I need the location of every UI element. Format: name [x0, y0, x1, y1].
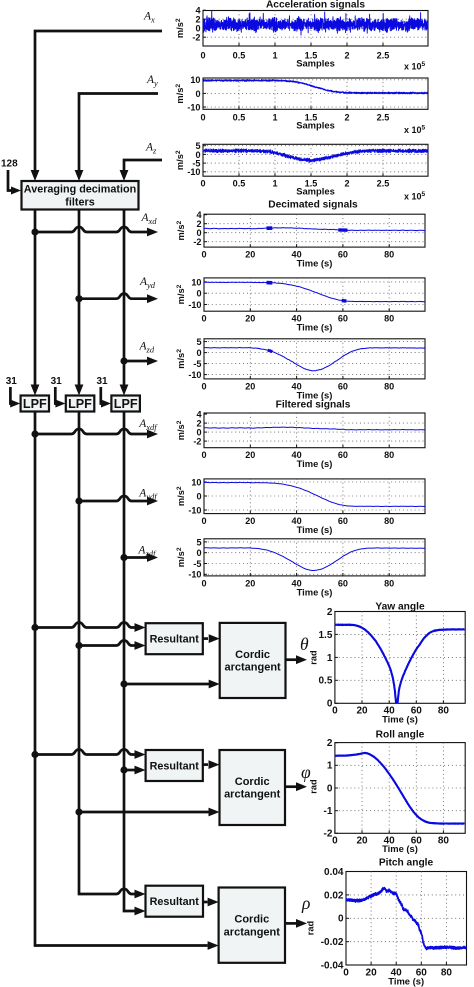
plot Pitch angle: x tick labels — [343, 968, 452, 979]
label Azd — [139, 341, 155, 355]
wire roll resultant input 2 — [124, 766, 146, 775]
junction dot roll input 1 — [31, 751, 38, 758]
plot Axd decimated: x tick labels — [201, 250, 394, 260]
svg-text:0: 0 — [196, 548, 201, 558]
wire pitch output rho — [285, 919, 307, 928]
svg-text:2.5: 2.5 — [377, 113, 390, 123]
svg-text:0.5: 0.5 — [233, 179, 246, 189]
svg-text:0: 0 — [201, 250, 206, 260]
plot Roll angle: y tick labels — [323, 738, 332, 840]
svg-text:Time (s): Time (s) — [297, 524, 333, 535]
label Ay — [146, 74, 158, 88]
svg-text:-0.04: -0.04 — [321, 960, 344, 971]
plot Ayd decimated: signal trace — [204, 282, 425, 302]
svg-text:2: 2 — [344, 51, 349, 61]
svg-text:0: 0 — [196, 348, 201, 358]
svg-text:-5: -5 — [193, 559, 201, 569]
plot Aydf filtered: axes box — [204, 479, 425, 514]
wire yaw output theta — [286, 655, 308, 664]
svg-text:Resultant: Resultant — [150, 634, 200, 646]
svg-text:m/s2: m/s2 — [175, 84, 185, 104]
junction dot yaw input 1 — [31, 624, 38, 631]
svg-text:LPF: LPF — [68, 397, 92, 411]
wire 31 into LPF2 — [55, 387, 65, 408]
svg-text:Time (s): Time (s) — [297, 322, 333, 333]
wire 128 into averaging block — [8, 170, 21, 195]
svg-text:80: 80 — [384, 516, 394, 526]
label Ax — [143, 11, 155, 25]
svg-text:-10: -10 — [187, 102, 200, 112]
junction dot yaw input 2 — [75, 642, 82, 649]
svg-text:10: 10 — [190, 75, 200, 85]
svg-text:1.5: 1.5 — [318, 630, 332, 641]
svg-text:2: 2 — [344, 113, 349, 123]
svg-text:Resultant: Resultant — [150, 760, 200, 772]
plot Azdf filtered: y tick labels — [188, 537, 201, 579]
label Azdf — [137, 545, 157, 559]
svg-text:Az: Az — [145, 142, 157, 156]
wire yaw resultant input 2 — [79, 640, 146, 650]
svg-text:-2: -2 — [193, 437, 201, 447]
svg-text:rad: rad — [309, 650, 319, 665]
plot Ayd decimated: axes box — [204, 278, 425, 311]
plot Roll angle: axes box — [335, 743, 465, 834]
svg-text:m/s2: m/s2 — [176, 420, 186, 440]
plot Azdf filtered: x tick labels — [201, 578, 394, 588]
svg-text:31: 31 — [51, 376, 63, 387]
block LPF U2 — [66, 396, 95, 412]
wire Azdf branch to plot — [124, 553, 158, 562]
plot Ax acceleration: signal trace — [203, 11, 428, 35]
plot Axdf filtered: signal trace — [204, 427, 425, 430]
svg-text:0: 0 — [195, 89, 200, 99]
plot Yaw angle: x tick labels — [332, 706, 449, 717]
svg-text:128: 128 — [1, 159, 18, 170]
plot Axd decimated: signal trace — [204, 228, 425, 231]
junction dot roll cordic input — [75, 808, 82, 815]
wire yaw resultant to cordic — [203, 634, 220, 643]
svg-text:LPF: LPF — [114, 397, 138, 411]
svg-text:1: 1 — [327, 653, 333, 664]
svg-text:rad: rad — [306, 920, 316, 935]
svg-text:-2: -2 — [193, 237, 201, 247]
svg-text:0: 0 — [343, 968, 349, 979]
plot Yaw angle: axes box — [335, 612, 465, 704]
svg-text:31: 31 — [97, 376, 109, 387]
plot Ax acceleration: x tick labels — [200, 51, 389, 61]
plot Ay acceleration: signal trace — [203, 79, 428, 94]
svg-text:-0.02: -0.02 — [321, 937, 344, 948]
block Cordic arctangent roll — [220, 750, 286, 825]
svg-text:1: 1 — [272, 113, 277, 123]
svg-text:φ: φ — [301, 762, 311, 782]
wire Ax input — [31, 31, 162, 181]
svg-text:Time (s): Time (s) — [382, 714, 418, 725]
svg-text:5: 5 — [196, 537, 201, 547]
block Resultant pitch — [146, 886, 204, 917]
svg-text:m/s2: m/s2 — [176, 547, 186, 567]
plot Pitch angle: y tick labels — [321, 867, 344, 972]
svg-text:ρ: ρ — [301, 893, 310, 913]
svg-text:60: 60 — [338, 314, 348, 324]
plot Axdf filtered: x tick labels — [201, 450, 394, 460]
plot Az acceleration: axes box — [203, 144, 428, 176]
junction dot Ayd — [75, 295, 82, 302]
svg-text:Time (s): Time (s) — [297, 258, 333, 269]
plot Axd decimated: axes box — [204, 214, 425, 247]
plot Azd decimated: y tick labels — [188, 337, 201, 380]
svg-text:2: 2 — [327, 607, 333, 618]
svg-text:80: 80 — [438, 706, 450, 717]
svg-text:60: 60 — [338, 516, 348, 526]
svg-text:-10: -10 — [187, 167, 200, 177]
plot Azdf filtered: axes box — [204, 539, 425, 576]
svg-text:-5: -5 — [193, 359, 201, 369]
label Axd — [141, 212, 158, 226]
svg-text:Ax: Ax — [143, 11, 155, 25]
plot Aydf filtered: x tick labels — [201, 516, 394, 526]
wire trunk z filtered (to pitch resultant) — [124, 412, 146, 916]
svg-text:arctangent: arctangent — [224, 926, 281, 938]
wire 31 into LPF1 — [10, 387, 20, 408]
plot Yaw angle: signal trace — [335, 625, 465, 703]
svg-text:-10: -10 — [188, 505, 201, 515]
svg-text:Time (s): Time (s) — [388, 976, 424, 987]
wire Azd branch to plot — [124, 357, 158, 366]
svg-text:60: 60 — [338, 450, 348, 460]
svg-text:1: 1 — [272, 179, 277, 189]
plot Yaw angle: y tick labels — [318, 607, 332, 710]
svg-text:0.02: 0.02 — [324, 890, 344, 901]
junction dot Azd — [120, 357, 127, 364]
svg-text:5: 5 — [196, 337, 201, 347]
label Aydf — [138, 488, 158, 502]
svg-text:-10: -10 — [188, 570, 201, 580]
svg-text:31: 31 — [6, 376, 18, 387]
wire pitch resultant to cordic — [203, 898, 219, 907]
block Resultant roll — [146, 750, 203, 781]
label Axdf — [138, 418, 158, 432]
svg-text:Aydf: Aydf — [138, 488, 158, 502]
svg-text:Samples: Samples — [296, 186, 335, 197]
svg-text:-2: -2 — [192, 33, 200, 43]
plot Pitch angle: axes box — [346, 872, 467, 966]
svg-text:-10: -10 — [188, 370, 201, 380]
svg-text:x 105: x 105 — [404, 61, 426, 72]
plot Azd decimated: x tick labels — [201, 381, 394, 391]
svg-text:20: 20 — [366, 968, 378, 979]
wire trunk x (Axd) — [31, 210, 40, 396]
label Ayd — [139, 276, 156, 290]
svg-text:0.04: 0.04 — [324, 867, 344, 878]
svg-text:0: 0 — [201, 450, 206, 460]
svg-text:0: 0 — [201, 314, 206, 324]
wire yaw resultant input 1 — [35, 622, 146, 632]
svg-text:80: 80 — [384, 314, 394, 324]
junction dot Azdf — [120, 554, 127, 561]
svg-text:Ay: Ay — [146, 74, 158, 88]
wire roll resultant to cordic — [203, 760, 220, 769]
svg-text:LPF: LPF — [23, 397, 47, 411]
svg-text:20: 20 — [356, 836, 368, 847]
svg-text:m/s2: m/s2 — [176, 349, 186, 369]
svg-text:20: 20 — [245, 450, 255, 460]
svg-text:Filtered signals: Filtered signals — [276, 400, 351, 411]
svg-text:x 105: x 105 — [404, 124, 426, 135]
svg-text:filters: filters — [65, 196, 94, 208]
svg-text:Azd: Azd — [139, 341, 155, 355]
plot Ay acceleration: axes box — [203, 78, 428, 109]
svg-text:0: 0 — [200, 51, 205, 61]
svg-text:80: 80 — [438, 836, 450, 847]
svg-text:80: 80 — [384, 250, 394, 260]
svg-text:60: 60 — [338, 578, 348, 588]
wire trunk y filtered (to pitch resultant) — [79, 412, 146, 899]
plot Axdf filtered: axes box — [204, 413, 425, 448]
svg-text:Time (s): Time (s) — [297, 586, 333, 597]
svg-text:2: 2 — [327, 738, 333, 749]
svg-text:0: 0 — [201, 516, 206, 526]
svg-text:0: 0 — [200, 179, 205, 189]
svg-text:0: 0 — [196, 289, 201, 299]
svg-text:m/s2: m/s2 — [175, 150, 185, 170]
junction dot yaw cordic input — [120, 680, 127, 687]
block Averaging decimation filters — [22, 181, 139, 210]
svg-text:0: 0 — [201, 578, 206, 588]
svg-text:0: 0 — [327, 783, 333, 794]
plot Ay acceleration: y tick labels — [187, 75, 200, 112]
svg-text:Yaw angle: Yaw angle — [375, 602, 425, 613]
svg-text:Axd: Axd — [141, 212, 158, 226]
plot Roll angle: signal trace — [335, 753, 465, 824]
svg-text:0.5: 0.5 — [233, 113, 246, 123]
plot Az acceleration: y tick labels — [187, 141, 200, 177]
label Az — [145, 142, 157, 156]
wire roll resultant input 1 — [35, 749, 146, 759]
svg-text:Cordic: Cordic — [235, 776, 270, 788]
svg-text:Axdf: Axdf — [138, 418, 158, 432]
svg-text:arctangent: arctangent — [224, 662, 281, 674]
plot Azd decimated: signal trace — [204, 348, 425, 371]
wire trunk x filtered (to pitch cordic) — [35, 412, 219, 950]
svg-text:x 105: x 105 — [404, 191, 426, 202]
wire Axdf branch to plot — [35, 429, 158, 439]
wire 31 into LPF3 — [101, 387, 111, 408]
plot Ayd decimated: x tick labels — [201, 314, 394, 324]
svg-text:Averaging decimation: Averaging decimation — [24, 184, 136, 196]
plot Aydf filtered: y tick labels — [188, 477, 201, 515]
svg-text:10: 10 — [191, 477, 201, 487]
svg-text:Samples: Samples — [296, 58, 335, 69]
svg-text:80: 80 — [384, 450, 394, 460]
svg-text:0: 0 — [338, 914, 344, 925]
svg-text:-1: -1 — [323, 806, 332, 817]
wire trunk z (Azd) — [120, 210, 129, 396]
plot Axd decimated: y tick labels — [193, 210, 202, 247]
block Resultant yaw — [146, 623, 203, 654]
plot Az acceleration: signal trace — [203, 149, 428, 163]
svg-text:Cordic: Cordic — [235, 649, 270, 661]
svg-text:80: 80 — [384, 381, 394, 391]
svg-text:0: 0 — [196, 491, 201, 501]
svg-text:0: 0 — [332, 706, 338, 717]
svg-text:Azdf: Azdf — [137, 545, 157, 559]
svg-text:60: 60 — [338, 381, 348, 391]
svg-text:Pitch angle: Pitch angle — [379, 858, 434, 869]
svg-text:Time (s): Time (s) — [382, 843, 418, 854]
svg-text:1: 1 — [327, 761, 333, 772]
svg-text:60: 60 — [338, 250, 348, 260]
svg-text:m/s2: m/s2 — [175, 18, 185, 38]
block LPF U3 — [111, 396, 139, 412]
svg-text:Cordic: Cordic — [234, 914, 269, 926]
wire yaw cordic z input — [124, 680, 220, 689]
svg-text:m/s2: m/s2 — [176, 486, 186, 506]
svg-text:0.5: 0.5 — [318, 676, 332, 687]
block Cordic arctangent yaw — [220, 623, 286, 698]
svg-text:20: 20 — [245, 250, 255, 260]
svg-text:80: 80 — [441, 968, 453, 979]
plot Ay acceleration: x tick labels — [200, 113, 389, 123]
wire roll cordic y input (plain crossing) — [79, 808, 220, 817]
svg-text:Samples: Samples — [296, 120, 335, 131]
svg-text:2.5: 2.5 — [377, 51, 390, 61]
svg-text:2.5: 2.5 — [377, 179, 390, 189]
svg-text:20: 20 — [245, 578, 255, 588]
svg-text:1: 1 — [272, 51, 277, 61]
wire roll output phi — [285, 782, 307, 791]
svg-text:20: 20 — [245, 314, 255, 324]
svg-text:20: 20 — [356, 706, 368, 717]
wire Ay input — [75, 94, 158, 182]
svg-text:2: 2 — [344, 179, 349, 189]
svg-text:rad: rad — [309, 779, 319, 794]
svg-text:20: 20 — [245, 516, 255, 526]
junction dot Axdf — [31, 430, 38, 437]
plot Ax acceleration: axes box — [203, 10, 428, 46]
junction dot Aydf — [75, 497, 82, 504]
svg-text:m/s2: m/s2 — [176, 284, 186, 304]
svg-text:0.5: 0.5 — [233, 51, 246, 61]
svg-text:-10: -10 — [188, 300, 201, 310]
plot Axdf filtered: y tick labels — [193, 410, 202, 447]
svg-text:Roll angle: Roll angle — [376, 730, 425, 741]
junction dot roll input 2 — [120, 766, 127, 773]
svg-text:Time (s): Time (s) — [297, 458, 333, 469]
plot Azdf filtered: signal trace — [204, 548, 425, 571]
junction dot Axd — [31, 228, 38, 235]
wire Aydf branch to plot — [79, 496, 158, 506]
svg-text:10: 10 — [191, 277, 201, 287]
svg-text:20: 20 — [245, 381, 255, 391]
svg-text:m/s2: m/s2 — [176, 220, 186, 240]
block LPF U1 — [21, 396, 49, 412]
svg-text:Acceleration signals: Acceleration signals — [266, 0, 365, 11]
svg-text:80: 80 — [384, 578, 394, 588]
svg-text:0: 0 — [332, 836, 338, 847]
svg-text:0: 0 — [201, 381, 206, 391]
plot Aydf filtered: signal trace — [204, 482, 425, 506]
svg-text:Decimated signals: Decimated signals — [268, 200, 358, 211]
svg-text:Resultant: Resultant — [150, 896, 200, 908]
plot Ax acceleration: y tick labels — [192, 6, 201, 43]
svg-text:Ayd: Ayd — [139, 276, 156, 290]
block Cordic arctangent pitch — [219, 888, 285, 963]
wire Az input — [120, 160, 162, 181]
svg-text:arctangent: arctangent — [224, 789, 281, 801]
wire Axd branch to plot — [35, 227, 158, 237]
plot Pitch angle: signal trace — [346, 888, 466, 950]
svg-text:0: 0 — [200, 113, 205, 123]
wire Ayd branch to plot — [79, 294, 158, 304]
wire trunk y (Ayd) — [75, 210, 84, 396]
plot Roll angle: x tick labels — [332, 836, 449, 847]
plot Ayd decimated: y tick labels — [188, 277, 201, 310]
plot Azd decimated: axes box — [204, 339, 425, 379]
plot Az acceleration: x tick labels — [200, 179, 389, 189]
